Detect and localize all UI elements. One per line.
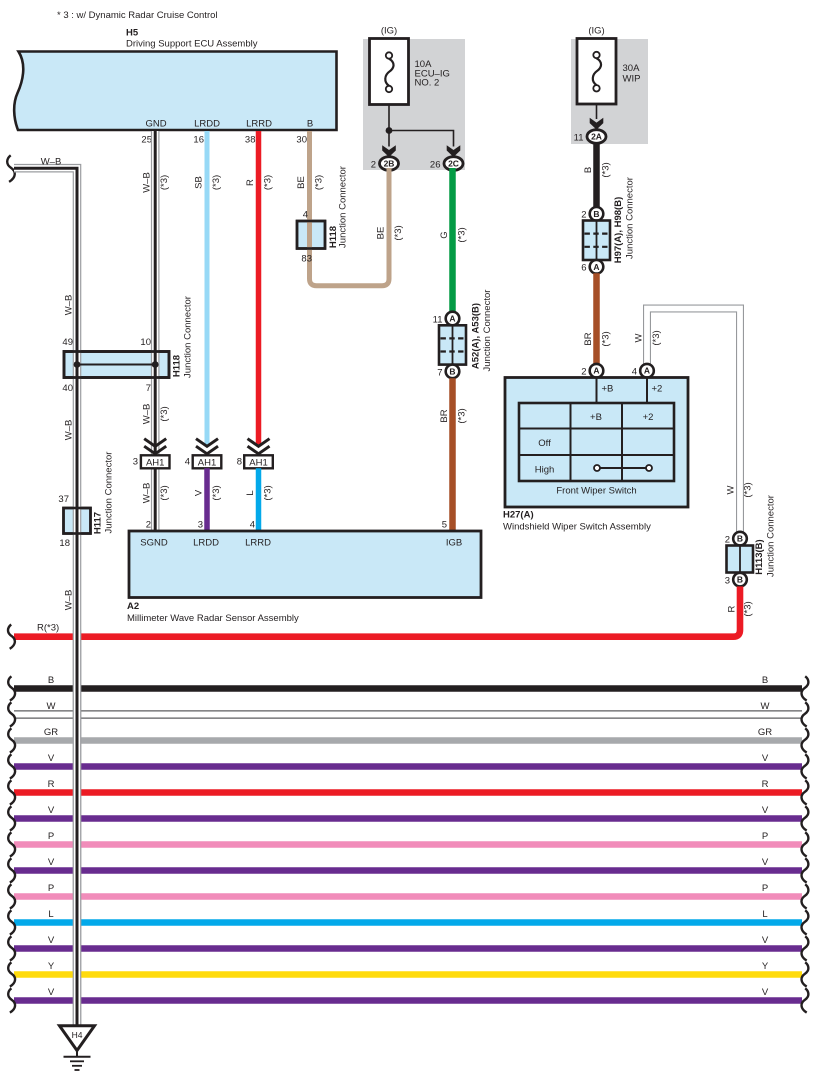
panel for fuse WIP: [571, 39, 648, 144]
switch table: [519, 403, 674, 481]
svg-text:W: W: [47, 701, 56, 712]
svg-text:2: 2: [371, 160, 376, 171]
svg-text:30A: 30A: [623, 63, 641, 74]
svg-text:BR: BR: [583, 332, 594, 345]
gray panels: [363, 39, 648, 170]
wire BR to A2 IGB: [449, 378, 456, 531]
bus GR: [14, 737, 802, 744]
svg-text:11: 11: [574, 133, 584, 144]
svg-text:Driving Support ECU Assembly: Driving Support ECU Assembly: [126, 39, 258, 50]
svg-text:Junction Connector: Junction Connector: [482, 290, 493, 372]
svg-text:(*3): (*3): [263, 485, 274, 500]
connector AH1 pin 8 box: [244, 455, 273, 468]
wire W from wiper switch to H113: [647, 309, 740, 532]
svg-text:W: W: [726, 485, 737, 494]
svg-text:4: 4: [632, 367, 637, 378]
svg-text:H117: H117: [93, 512, 104, 534]
bus V3: [14, 867, 802, 874]
svg-text:(*3): (*3): [159, 406, 170, 421]
ground triangle H4: [60, 1026, 95, 1051]
svg-text:BE: BE: [376, 227, 387, 240]
svg-text:+2: +2: [652, 384, 663, 395]
svg-text:BR: BR: [439, 409, 450, 422]
svg-text:2: 2: [146, 520, 151, 531]
bus V4: [14, 945, 802, 952]
svg-text:4: 4: [185, 457, 190, 468]
svg-text:(*3): (*3): [601, 331, 612, 346]
svg-text:4: 4: [303, 210, 308, 221]
svg-text:W: W: [761, 701, 770, 712]
break squiggle R bus left: [8, 625, 15, 649]
wire G from 2C: [449, 168, 456, 312]
bus V5: [14, 997, 802, 1004]
svg-text:W–B: W–B: [64, 590, 75, 611]
svg-text:L: L: [245, 490, 256, 495]
bus R: [14, 789, 802, 796]
svg-text:(*3): (*3): [651, 330, 662, 345]
svg-text:R: R: [727, 605, 738, 612]
svg-text:(IG): (IG): [588, 26, 604, 37]
H118 internal link with dots: [77, 364, 155, 366]
svg-text:P: P: [48, 883, 54, 894]
pin stub +B: [596, 378, 598, 404]
svg-text:26: 26: [430, 160, 441, 171]
svg-text:7: 7: [146, 383, 151, 394]
svg-text:L: L: [762, 909, 767, 920]
svg-text:B: B: [449, 366, 455, 376]
wire to 2B: [388, 131, 390, 147]
svg-text:H5: H5: [126, 28, 139, 39]
note: w/ Dynamic Radar Cruise Control: [57, 10, 218, 21]
svg-text:(IG): (IG): [381, 26, 397, 37]
wire W-B from H5 GND: [151, 131, 160, 455]
svg-text:B: B: [48, 675, 54, 686]
connector circle A pin 4: [640, 364, 654, 378]
svg-text:GND: GND: [145, 119, 166, 130]
svg-text:P: P: [762, 831, 768, 842]
svg-text:2B: 2B: [384, 159, 395, 169]
junction connector A52(A) A53(B): [446, 312, 460, 326]
svg-text:H118: H118: [172, 355, 183, 377]
connector AH1 pin 4 chevrons: [196, 439, 218, 447]
svg-text:V: V: [48, 935, 55, 946]
fuse WIP assembly: [574, 26, 641, 144]
pin stub +2: [646, 378, 648, 404]
right chain: [8, 143, 777, 649]
svg-text:BE: BE: [296, 176, 307, 189]
svg-text:(*3): (*3): [601, 162, 612, 177]
svg-text:W–B: W–B: [142, 404, 153, 425]
svg-text:Junction Connector: Junction Connector: [104, 452, 115, 534]
connector oval 2A: [587, 130, 606, 144]
junction connector box borders over wires: [64, 221, 326, 534]
svg-text:4: 4: [250, 520, 255, 531]
svg-text:6: 6: [581, 263, 586, 274]
A2 box: [129, 531, 481, 598]
svg-text:+B: +B: [590, 412, 602, 423]
svg-text:(*3): (*3): [393, 225, 404, 240]
connector AH1 pin 8 chevrons: [248, 439, 270, 447]
bus Y: [14, 971, 802, 978]
svg-text:16: 16: [193, 135, 204, 146]
connector oval 2C: [444, 157, 463, 171]
bus B: [14, 685, 802, 692]
ECU H5 box: [14, 52, 336, 131]
svg-text:W: W: [634, 333, 645, 342]
svg-text:H27(A): H27(A): [503, 510, 534, 521]
svg-text:V: V: [762, 987, 769, 998]
svg-text:V: V: [194, 489, 205, 496]
H118 (BE) box border: [297, 221, 325, 249]
svg-text:R: R: [245, 179, 256, 186]
svg-text:Millimeter Wave Radar Sensor A: Millimeter Wave Radar Sensor Assembly: [127, 613, 299, 624]
svg-text:LRRD: LRRD: [246, 119, 272, 130]
bus P1: [14, 841, 802, 848]
wire branch to 2C: [389, 131, 454, 147]
svg-text:R: R: [762, 779, 769, 790]
svg-text:B: B: [737, 534, 743, 544]
fuse 10A ECU-IG NO.2: [370, 39, 409, 105]
svg-text:A: A: [593, 262, 599, 272]
svg-text:Junction Connector: Junction Connector: [625, 177, 636, 259]
svg-text:2: 2: [581, 210, 586, 221]
wire R (LRRD): [256, 131, 262, 445]
svg-text:V: V: [48, 805, 55, 816]
svg-text:+2: +2: [643, 412, 654, 423]
wires from H5: [194, 131, 405, 445]
junction connector H118 (BE wire): [297, 221, 325, 249]
svg-text:(*3): (*3): [211, 485, 222, 500]
svg-text:R(*3): R(*3): [37, 623, 59, 634]
svg-text:(*3): (*3): [743, 482, 754, 497]
middle connectors: [133, 168, 493, 531]
svg-text:Y: Y: [762, 961, 769, 972]
ground bars: [64, 1056, 91, 1058]
break squiggle W-B top left: [7, 155, 15, 182]
svg-text:Off: Off: [538, 438, 551, 449]
svg-text:H97(A), H98(B): H97(A), H98(B): [613, 197, 624, 264]
svg-text:(*3): (*3): [263, 175, 274, 190]
svg-text:W–B: W–B: [41, 157, 62, 168]
connector AH1 pin 3 chevrons: [144, 439, 166, 447]
svg-text:W–B: W–B: [142, 172, 153, 193]
svg-text:AH1: AH1: [198, 457, 216, 468]
svg-text:38: 38: [245, 135, 256, 146]
left ground wire chain: [7, 131, 193, 1026]
svg-text:P: P: [762, 883, 768, 894]
wire BR to wiper switch: [593, 273, 600, 363]
svg-text:B: B: [307, 119, 313, 130]
svg-text:(*3): (*3): [743, 601, 754, 616]
fuse 30A WIP: [577, 39, 616, 105]
svg-text:(*3): (*3): [159, 175, 170, 190]
bus P2: [14, 893, 802, 900]
svg-text:2A: 2A: [591, 132, 602, 142]
svg-text:SB: SB: [194, 176, 205, 189]
svg-text:W–B: W–B: [64, 295, 75, 316]
svg-text:A2: A2: [127, 601, 139, 612]
junction connector H117 box: [64, 508, 91, 534]
wiper switch H27(A) box: [505, 378, 688, 508]
svg-text:Junction Connector: Junction Connector: [766, 495, 777, 577]
svg-text:8: 8: [237, 457, 242, 468]
svg-text:10: 10: [140, 337, 151, 348]
arrow into 2B: [382, 145, 396, 157]
svg-text:P: P: [48, 831, 54, 842]
svg-text:Junction Connector: Junction Connector: [183, 296, 194, 378]
bus W: [14, 710, 802, 712]
wire R from H113 to bus: [14, 586, 740, 636]
svg-text:V: V: [762, 805, 769, 816]
svg-text:2C: 2C: [448, 159, 459, 169]
svg-text:(*3): (*3): [457, 227, 468, 242]
svg-text:LRDD: LRDD: [194, 119, 220, 130]
svg-text:(*3): (*3): [159, 485, 170, 500]
svg-text:3: 3: [725, 576, 730, 587]
svg-text:3: 3: [198, 520, 203, 531]
svg-text:Y: Y: [48, 961, 55, 972]
bus lines: [8, 675, 808, 1013]
ground stem: [76, 1051, 78, 1057]
wire W-B below AH1 to A2: [151, 468, 160, 531]
connector oval 2B: [380, 157, 399, 171]
svg-text:(*3): (*3): [211, 175, 222, 190]
svg-text:H4: H4: [72, 1030, 83, 1040]
svg-text:7: 7: [437, 368, 442, 379]
wire fuse output: [388, 105, 390, 131]
svg-text:V: V: [762, 753, 769, 764]
connector circle A pin 2: [590, 364, 604, 378]
svg-text:30: 30: [296, 135, 307, 146]
svg-text:+B: +B: [602, 384, 614, 395]
junction connector H113(B): [733, 532, 747, 546]
wire W-B left ground run: [14, 168, 77, 1025]
svg-text:V: V: [762, 857, 769, 868]
svg-text:A: A: [644, 366, 650, 376]
svg-text:AH1: AH1: [249, 457, 267, 468]
bus V1: [14, 763, 802, 770]
bus V2: [14, 815, 802, 822]
H117 box border: [64, 508, 91, 534]
svg-text:V: V: [48, 753, 55, 764]
wire fuse output: [596, 104, 598, 119]
svg-text:40: 40: [62, 383, 73, 394]
svg-text:83: 83: [301, 254, 312, 265]
wiper switch: [503, 364, 688, 533]
ECU H5 assembly: [14, 28, 336, 146]
svg-text:R: R: [48, 779, 55, 790]
svg-text:G: G: [439, 231, 450, 238]
svg-text:49: 49: [62, 337, 73, 348]
svg-text:B: B: [593, 209, 599, 219]
svg-text:25: 25: [141, 135, 152, 146]
svg-text:B: B: [583, 167, 594, 173]
arrow into 2A: [590, 118, 604, 130]
svg-text:W–B: W–B: [64, 420, 75, 441]
junction dot: [386, 127, 393, 134]
svg-text:V: V: [762, 935, 769, 946]
svg-text:V: V: [48, 857, 55, 868]
ground: [60, 1026, 95, 1070]
svg-text:GR: GR: [758, 727, 772, 738]
svg-text:H113(B): H113(B): [754, 539, 765, 574]
svg-text:SGND: SGND: [140, 538, 168, 549]
svg-text:LRRD: LRRD: [245, 538, 271, 549]
svg-text:2: 2: [725, 535, 730, 546]
svg-text:(*3): (*3): [314, 175, 325, 190]
svg-text:AH1: AH1: [146, 457, 164, 468]
svg-text:A52(A), A53(B): A52(A), A53(B): [471, 303, 482, 369]
wire V (LRDD to A2): [204, 468, 210, 531]
svg-text:WIP: WIP: [623, 74, 641, 85]
connector AH1 pin 4 box: [193, 455, 222, 468]
panel for fuse ECU-IG: [363, 39, 465, 170]
svg-text:Front Wiper Switch: Front Wiper Switch: [556, 486, 636, 497]
wire L (LRRD to A2): [256, 468, 262, 531]
svg-text:18: 18: [59, 538, 70, 549]
wire W-B crossing buses (overlay): [73, 630, 82, 1026]
svg-text:(*3): (*3): [457, 408, 468, 423]
svg-text:B: B: [737, 575, 743, 585]
wire B from 2A: [593, 143, 600, 207]
svg-text:W–B: W–B: [142, 483, 153, 504]
svg-text:Junction Connector: Junction Connector: [338, 166, 349, 248]
wire SB (LRDD): [205, 131, 210, 445]
arrow into 2C: [447, 145, 461, 157]
svg-text:A: A: [449, 314, 455, 324]
svg-text:11: 11: [433, 315, 443, 326]
svg-text:LRDD: LRDD: [193, 538, 219, 549]
A2 radar sensor: [127, 531, 481, 624]
svg-text:A: A: [593, 366, 599, 376]
svg-text:GR: GR: [44, 727, 58, 738]
svg-text:High: High: [535, 465, 555, 476]
svg-text:L: L: [48, 909, 53, 920]
svg-text:V: V: [48, 987, 55, 998]
bus L: [14, 919, 802, 926]
svg-text:NO. 2: NO. 2: [415, 78, 440, 89]
junction connector H118 box: [64, 352, 169, 378]
svg-text:5: 5: [442, 520, 447, 531]
fuse ECU-IG assembly: [370, 26, 464, 171]
svg-text:37: 37: [58, 494, 69, 505]
svg-text:B: B: [762, 675, 768, 686]
junction connector H97(A) H98(B): [590, 207, 604, 221]
svg-text:3: 3: [133, 457, 138, 468]
contact line: [597, 467, 649, 469]
H118 box border: [64, 352, 169, 378]
svg-text:Windshield Wiper Switch Assemb: Windshield Wiper Switch Assembly: [503, 522, 651, 533]
svg-text:* 3 : w/ Dynamic Radar Cruise: * 3 : w/ Dynamic Radar Cruise Control: [57, 10, 218, 21]
svg-text:IGB: IGB: [446, 538, 462, 549]
wire BE from H5 pin 30 to 2B: [310, 131, 390, 286]
connector AH1 pin 3 box: [141, 455, 170, 468]
svg-text:2: 2: [581, 367, 586, 378]
